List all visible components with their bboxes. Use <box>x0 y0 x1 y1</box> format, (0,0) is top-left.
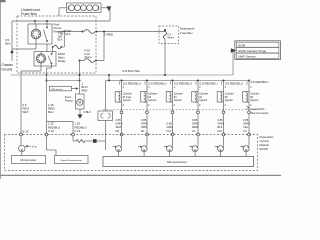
svg-text:GRN/: GRN/ <box>218 121 225 125</box>
injector J2 coil <box>141 81 151 103</box>
transistor Q2 driver <box>138 136 147 157</box>
svg-text:Fuse Box: Fuse Box <box>180 31 193 35</box>
svg-text:Ground: Ground <box>2 67 13 71</box>
wire: B+ feed rail y=21 <box>12 20 110 22</box>
svg-text:0.85: 0.85 <box>167 121 173 125</box>
svg-text:0.5 RED/BLU: 0.5 RED/BLU <box>200 81 218 85</box>
svg-text:0.5 RED/BLU: 0.5 RED/BLU <box>149 81 167 85</box>
relay K1 Fuel Pump Relay <box>28 24 52 44</box>
svg-text:0.85: 0.85 <box>243 118 249 122</box>
svg-text:G55 Intrcon: G55 Intrcon <box>51 88 63 91</box>
node: rail tap injector 3 <box>172 80 174 82</box>
label 0.5 RED/BLU (1) <box>120 81 142 85</box>
svg-text:MAF Sensor: MAF Sensor <box>239 54 256 58</box>
svg-text:C3: C3 <box>243 129 247 133</box>
label Fuel Pump Relay <box>54 22 62 33</box>
fuse F1 Gauge 30A <box>58 29 98 36</box>
label 0.5 RED/WHT <box>23 103 30 134</box>
connector: PCM pin 3 <box>171 133 174 136</box>
label 0.85 GRN wire 1 <box>116 118 123 133</box>
wire: 1.25 RED/BLU main relay output <box>46 64 57 156</box>
injector J3 coil <box>166 81 176 103</box>
connector tag G55 <box>50 86 79 91</box>
wire: fuse feed from 2 RED <box>103 31 105 61</box>
svg-text:30 A: 30 A <box>65 32 70 36</box>
label 0.85 GRN wire 6 <box>243 118 250 133</box>
label 2 BLK <box>84 110 92 114</box>
wire: injector supply rail (left part) <box>47 80 81 82</box>
label 0.5 RED/BLU (3) <box>171 81 193 85</box>
svg-text:RED: RED <box>82 89 88 93</box>
svg-text:Dashpanel: Dashpanel <box>180 27 195 31</box>
transistor Q4 driver <box>189 136 198 157</box>
svg-text:Underhood: Underhood <box>21 8 40 12</box>
svg-text:Fuse Box: Fuse Box <box>21 12 37 16</box>
svg-text:Fuse: Fuse <box>65 29 71 33</box>
connector circles at PCM entry <box>20 133 75 136</box>
label Cylinder 1 Injector <box>123 93 132 102</box>
svg-text:Injector: Injector <box>174 99 182 102</box>
ground (fuel pump) <box>77 109 82 119</box>
fusible link FL (coil in box) <box>67 3 102 13</box>
wire: injector 6 to PCM <box>248 102 252 135</box>
svg-text:0.8 BLK/YEL: 0.8 BLK/YEL <box>123 69 141 73</box>
label 0.5 BLK <box>5 38 10 45</box>
svg-text:Microprocessor: Microprocessor <box>21 159 37 162</box>
svg-text:V cc: V cc <box>32 145 38 149</box>
svg-text:2 RED: 2 RED <box>104 33 114 37</box>
svg-text:GRN/: GRN/ <box>116 121 123 125</box>
PCM box (dashed) <box>5 135 258 171</box>
svg-text:0.85: 0.85 <box>192 118 198 122</box>
EGR EVAP MAF sensor box <box>235 41 281 60</box>
wire: injector 2 to PCM <box>146 102 150 135</box>
svg-text:Injector: Injector <box>148 99 156 102</box>
injector J6 coil <box>243 81 253 103</box>
svg-text:Test Connector: Test Connector <box>251 111 269 115</box>
connector: PCM pin 2 <box>146 133 149 136</box>
label Powertrain Control Module (PCM) <box>260 135 274 151</box>
wire: 2 BLU/RED to fuel pump <box>79 61 81 95</box>
svg-text:C-16: C-16 <box>48 129 55 133</box>
connector: PCM pin 4 <box>197 133 200 136</box>
transistor Q3 driver <box>164 136 173 157</box>
svg-text:GRN/: GRN/ <box>141 121 148 125</box>
node: rail tap injector 2 <box>146 80 148 82</box>
svg-text:0.5 RED/BLU: 0.5 RED/BLU <box>174 81 192 85</box>
label 0.85 GRN wire 2 <box>141 118 148 133</box>
label F-10 15A BLK <box>58 32 64 42</box>
node: rail tap injector 4 <box>197 80 199 82</box>
label 2 BLU/RED <box>82 81 88 92</box>
label 1.25 RED/BLU <box>48 103 55 114</box>
fuse C-4 Meter <box>163 29 173 39</box>
wire: branch down to gauge fuse 2 <box>63 31 65 48</box>
svg-text:BLK: BLK <box>58 38 63 42</box>
page corner mark <box>0 0 6 2</box>
label +Vcc <box>25 145 37 149</box>
wire: K1 switch to K2 <box>46 44 48 52</box>
wire: K1 coil to ground <box>35 44 37 49</box>
svg-text:D6: D6 <box>116 129 120 133</box>
connector line C-90 (dashed) <box>103 109 257 111</box>
transistor Q1 driver <box>113 136 122 157</box>
wire: 1.25 RED/BLU F-16 branch <box>47 121 74 141</box>
svg-text:2 BLK: 2 BLK <box>84 110 92 114</box>
svg-text:WHT: WHT <box>116 125 122 129</box>
wire: injector 5 to PCM <box>222 102 226 135</box>
page left border <box>0 0 2 179</box>
svg-text:BLK: BLK <box>5 42 10 46</box>
label 0.85 GRN wire 3 <box>167 121 173 132</box>
wire: chassis ground rail <box>11 21 14 61</box>
PCM box: Engine Microprocessor <box>55 156 89 164</box>
wire: rail link stub <box>108 74 110 82</box>
svg-text:Pump: Pump <box>65 99 73 103</box>
label Fuel Pump <box>65 95 73 103</box>
fuel pump M1 <box>76 94 85 109</box>
transistor Q5 driver <box>215 136 224 157</box>
label Cylinder 4 Injector <box>199 93 208 102</box>
svg-text:0.5 RED/BLU: 0.5 RED/BLU <box>123 81 141 85</box>
wire: injector 4 to PCM <box>197 102 201 135</box>
chassis ground label <box>2 63 14 71</box>
label 1.25 RED/BLU F-16 <box>75 122 87 133</box>
label 0.85 GRN wire 5 <box>218 118 225 133</box>
label Cylinder 5 Injector <box>225 93 234 102</box>
svg-text:F10: F10 <box>218 129 223 133</box>
connector: PCM pin 1 <box>120 133 123 136</box>
svg-text:0.85: 0.85 <box>116 118 122 122</box>
svg-text:F13: F13 <box>167 129 172 133</box>
label 0.5 RED/BLU (4) <box>196 81 218 85</box>
svg-text:C1: C1 <box>192 129 196 133</box>
connector: fuel switch test connector <box>247 106 269 115</box>
svg-text:Fuel Switch: Fuel Switch <box>251 107 265 111</box>
node: rail tap injector 5 <box>223 80 225 82</box>
label Cylinder 2 Injector <box>148 93 157 102</box>
wire: meter fuse down to rail <box>164 39 166 76</box>
svg-text:0.5 RED/BLU: 0.5 RED/BLU <box>251 80 269 84</box>
wire: internal PCM feed <box>105 141 107 150</box>
wire: injector supply rail (right part) <box>106 81 250 112</box>
node: rail tap injector 6 <box>248 80 250 82</box>
wire: 0.8 BLK/YEL rail <box>11 48 237 75</box>
label ECM Main Relay <box>58 52 66 63</box>
svg-text:Injector: Injector <box>199 99 207 102</box>
svg-text:0.85: 0.85 <box>141 118 147 122</box>
label 0.8 BLK/YEL <box>123 69 141 73</box>
svg-text:Injector: Injector <box>123 99 131 102</box>
label Dashpanel Fuse Box <box>180 27 195 35</box>
underhood fuse box (dashed) <box>17 16 96 73</box>
svg-text:WHT: WHT <box>23 110 30 114</box>
injector J1 coil <box>115 81 125 103</box>
label Cylinder 3 Injector <box>174 93 183 102</box>
fuse F-16 Fuel Pump <box>79 49 105 63</box>
wire: 0.5 RED/WHT relay coil drive to PCM <box>21 66 41 135</box>
svg-text:GRN: GRN <box>167 125 173 129</box>
svg-text:Injector: Injector <box>250 99 258 102</box>
svg-text:0.5 RED/BLU: 0.5 RED/BLU <box>225 81 243 85</box>
svg-text:M: M <box>78 101 81 105</box>
node: rail tap injector 1 <box>121 80 123 82</box>
svg-text:EVAP Canister Purge: EVAP Canister Purge <box>239 49 267 53</box>
svg-text:Meter: Meter <box>168 36 174 39</box>
resistor R1 <box>73 140 93 143</box>
label Cylinder 6 Injector <box>250 93 259 102</box>
svg-text:Relay: Relay <box>58 59 66 63</box>
transistor Q7 relay driver <box>19 136 25 156</box>
svg-text:GRN/: GRN/ <box>243 121 250 125</box>
wire: fusible link right lead to B+ rail <box>101 6 111 21</box>
wire: relay K1 pins <box>35 21 47 28</box>
svg-text:BLU: BLU <box>48 110 53 114</box>
relay K2 ECM Main Relay <box>34 52 56 67</box>
svg-text:F-16: F-16 <box>75 129 81 133</box>
svg-text:BLK: BLK <box>218 125 223 129</box>
component: driver block <box>93 139 106 143</box>
injector J5 coil <box>217 81 227 103</box>
transistor Q6 driver <box>240 136 249 157</box>
svg-text:Microprocessor: Microprocessor <box>167 160 187 164</box>
page bottom rule <box>0 174 281 176</box>
svg-text:D1: D1 <box>141 129 145 133</box>
svg-text:GRN/: GRN/ <box>192 121 199 125</box>
dash fuse box (dashed) <box>159 26 179 44</box>
svg-text:0.85: 0.85 <box>218 118 224 122</box>
label 0.85 GRN wire 4 <box>192 118 199 133</box>
svg-text:Injector: Injector <box>225 99 233 102</box>
wire: relay coil ground branch <box>12 48 36 50</box>
label 0.5 RED/BLU (2) <box>145 81 167 85</box>
label 1.25 RED/BLU C-16 <box>48 122 60 133</box>
connector: PCM pin 5 <box>222 133 225 136</box>
svg-text:RED: RED <box>192 125 198 129</box>
wire: injector 1 to PCM <box>120 102 124 135</box>
connector: PCM pin 6 <box>248 133 251 136</box>
svg-text:ORN: ORN <box>141 125 147 129</box>
fuse F2 <box>52 45 65 53</box>
wire: injector 3 to PCM <box>171 102 175 135</box>
PCM box: Microprocessor (left) <box>12 156 46 164</box>
connector C-8 on injector feed <box>98 111 113 141</box>
svg-text:E-16: E-16 <box>23 130 29 134</box>
PCM box: Microprocessor (main) <box>103 157 254 167</box>
wire: fusible link left lead <box>59 8 67 16</box>
svg-text:YEL: YEL <box>243 125 249 129</box>
label 0.5 RED/BLU (6) <box>247 80 269 85</box>
svg-text:Engine Microprocessor: Engine Microprocessor <box>61 159 83 162</box>
underhood fuse box label <box>21 8 40 16</box>
label 0.5 RED/BLU (5) <box>222 81 244 85</box>
svg-text:EGR: EGR <box>239 43 246 47</box>
svg-text:(PCM): (PCM) <box>260 147 268 151</box>
injector J4 coil <box>192 81 202 103</box>
wire: 2 RED to dash fuse box <box>97 32 166 37</box>
